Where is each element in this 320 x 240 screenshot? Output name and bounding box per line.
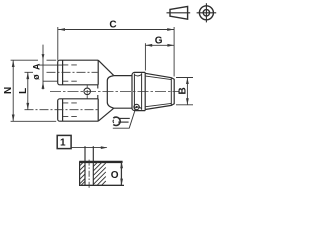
wrench icon xyxy=(113,117,130,125)
junction vertical center mark xyxy=(86,85,88,99)
neck waist xyxy=(107,76,114,109)
svg-text:L: L xyxy=(18,88,29,94)
dimension C line xyxy=(58,28,174,31)
dimension N line xyxy=(12,60,15,121)
extension line G left xyxy=(144,43,146,70)
projection symbol frustum xyxy=(167,6,191,19)
extension line N top xyxy=(11,59,57,61)
lower port hidden thread lines xyxy=(63,103,80,117)
svg-text:A: A xyxy=(31,63,41,70)
item 1 box xyxy=(57,135,71,148)
item 1 leader xyxy=(71,146,107,149)
upper port centerline xyxy=(25,71,98,73)
projection symbol target circle xyxy=(197,3,217,22)
extension line phi-A upper xyxy=(39,64,63,66)
junction hole circle xyxy=(84,88,91,95)
tube centerline xyxy=(88,160,90,189)
extension line C left xyxy=(57,27,59,61)
lower port centerline xyxy=(25,109,98,111)
extension line phi-A bottom xyxy=(43,80,58,82)
hex nut xyxy=(132,72,145,110)
main centerline xyxy=(50,90,179,92)
upper port hidden thread lines xyxy=(63,65,80,81)
dimension G line xyxy=(146,44,174,47)
section block top thick edge xyxy=(79,161,122,163)
lower port body xyxy=(58,99,98,121)
section block bottom edge extension xyxy=(79,184,124,186)
svg-text:O: O xyxy=(111,170,119,181)
upper port body xyxy=(58,60,98,85)
svg-text:1: 1 xyxy=(60,137,66,148)
svg-text:ø: ø xyxy=(31,74,41,80)
extension line C/G right xyxy=(173,27,175,77)
svg-text:G: G xyxy=(155,35,163,46)
svg-text:C: C xyxy=(109,19,116,30)
Y body upper slant xyxy=(98,60,114,75)
dimension O line xyxy=(120,162,123,185)
dimension phi-A line xyxy=(42,45,45,90)
svg-text:N: N xyxy=(3,87,14,94)
extension line N bottom xyxy=(11,120,57,122)
wrench leader line xyxy=(113,109,136,128)
section hatching left xyxy=(80,162,85,185)
dimension L line xyxy=(26,72,29,109)
section block xyxy=(79,162,124,186)
port end face stubs xyxy=(97,85,99,99)
tube wall lines xyxy=(85,146,93,185)
collar xyxy=(114,76,132,109)
dimension B line xyxy=(176,78,193,105)
svg-text:B: B xyxy=(178,87,189,94)
wrench leader dot xyxy=(134,104,139,109)
male thread xyxy=(145,73,174,109)
section hatching right xyxy=(93,162,106,185)
Y body lower slant xyxy=(98,108,114,121)
